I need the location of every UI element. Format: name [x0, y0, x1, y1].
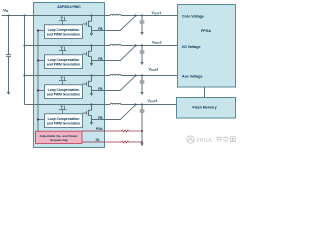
- Flash Memory block: [177, 98, 236, 119]
- svg-text:Loop Compensation: Loop Compensation: [48, 117, 80, 121]
- node dot seq ch2: [37, 59, 39, 61]
- node dot FB ch1: [134, 14, 136, 16]
- svg-text:Loop Compensation: Loop Compensation: [48, 58, 80, 62]
- node dot ch3 feed: [23, 74, 25, 76]
- svg-text:and PWM Generation: and PWM Generation: [47, 32, 80, 36]
- node dot GL: [141, 141, 143, 143]
- svg-text:Core Voltage: Core Voltage: [182, 14, 204, 18]
- svg-text:FB: FB: [98, 87, 103, 91]
- capacitor C4: [140, 105, 145, 112]
- ground arrow Q3: [90, 93, 94, 96]
- watermark logo: [187, 136, 194, 143]
- svg-text:and PWM Generation: and PWM Generation: [47, 62, 80, 66]
- wire FB ch4: [92, 105, 136, 120]
- transistor Q1: [83, 14, 93, 33]
- node dot Vin-B: [23, 14, 25, 16]
- wire FB ch2: [92, 46, 136, 61]
- capacitor Cin: [8, 16, 10, 55]
- wire Vin vertical bus: [24, 16, 26, 105]
- wire PGd: [82, 130, 122, 132]
- node dot output cap ch2: [141, 44, 143, 46]
- wire rail ch2: [25, 45, 111, 47]
- node dot FB ch3: [134, 74, 136, 76]
- block loop compensation ch1: [45, 25, 83, 39]
- sequencing bus: [37, 31, 39, 132]
- wire rail ch4: [25, 104, 111, 106]
- compensation network icon ch3: [59, 77, 67, 85]
- node dot output cap ch1: [141, 14, 143, 16]
- wire GL: [82, 141, 122, 143]
- FPGA block: [178, 5, 236, 88]
- resistor R1: [122, 130, 129, 132]
- capacitor C2: [140, 46, 145, 63]
- inductor L3: [110, 74, 121, 75]
- PMIC block U1 ADP5014: [34, 3, 105, 148]
- ground arrow ch4: [140, 143, 144, 146]
- svg-text:ADP5014 PMIC: ADP5014 PMIC: [57, 5, 81, 9]
- node dot PGd: [141, 130, 143, 132]
- wire ch4 cap to ground: [141, 112, 143, 143]
- svg-text:Loop Compensation: Loop Compensation: [48, 88, 80, 92]
- node dot output cap ch3: [141, 74, 143, 76]
- ground arrow Q2: [90, 63, 94, 66]
- wire Vin rail / Vout1 rail: [2, 15, 111, 17]
- ground arrow C3: [140, 92, 144, 95]
- resistor R2: [122, 141, 129, 143]
- node dot FB ch2: [134, 44, 136, 46]
- ground arrow Q1: [90, 33, 94, 36]
- svg-text:FPGA: FPGA: [197, 138, 212, 144]
- node dot Vin-A: [7, 14, 9, 16]
- svg-text:and PWM Generation: and PWM Generation: [47, 121, 80, 125]
- transistor Q3: [83, 74, 93, 93]
- node dot seq ch3: [37, 89, 39, 91]
- svg-text:Flash Memory: Flash Memory: [192, 105, 216, 109]
- svg-text:PGd: PGd: [96, 127, 103, 131]
- node dot seq ch4: [37, 118, 39, 120]
- block loop compensation ch3: [45, 85, 83, 99]
- node dot FB ch4: [134, 103, 136, 105]
- node dot output cap ch4: [141, 103, 143, 105]
- svg-text:and PWM Generation: and PWM Generation: [47, 92, 80, 96]
- ground arrow Q4: [90, 122, 94, 125]
- node dot ch2 feed: [23, 44, 25, 46]
- svg-text:FB: FB: [98, 57, 103, 61]
- svg-text:Aux Voltage: Aux Voltage: [182, 75, 203, 79]
- block loop compensation ch4: [45, 114, 83, 128]
- transistor Q4: [83, 103, 93, 122]
- svg-text:VOUT1: VOUT1: [152, 11, 162, 16]
- wire FB ch1: [92, 16, 136, 31]
- transistor Q2: [83, 44, 93, 63]
- compensation network icon ch4: [59, 106, 67, 114]
- inductor L1: [110, 14, 121, 15]
- block loop compensation ch2: [45, 55, 83, 69]
- wire FB ch3: [92, 76, 136, 91]
- compensation network icon ch2: [59, 47, 67, 55]
- svg-text:FB: FB: [98, 27, 103, 31]
- wire rail ch3: [25, 75, 111, 77]
- node dot seq ch1: [37, 29, 39, 31]
- capacitor C3: [140, 76, 145, 93]
- capacitor C1: [140, 16, 145, 33]
- svg-text:I/O Voltage: I/O Voltage: [182, 45, 201, 49]
- svg-text:FPGA: FPGA: [201, 29, 211, 33]
- ground arrow C1: [140, 32, 144, 35]
- compensation network icon ch1: [59, 17, 67, 25]
- svg-text:Loop Compensation: Loop Compensation: [48, 28, 80, 32]
- svg-text:VOUT2: VOUT2: [152, 41, 162, 46]
- inductor L2: [110, 44, 121, 45]
- ground arrow C2: [140, 62, 144, 65]
- ground arrow Cin: [7, 92, 11, 95]
- svg-text:GL: GL: [96, 138, 100, 142]
- svg-text:FB: FB: [98, 116, 103, 120]
- block sequencing: [36, 131, 83, 143]
- wire FPGA to Flash: [204, 87, 206, 98]
- svg-text:Sequencing: Sequencing: [50, 138, 68, 142]
- inductor L4: [110, 103, 121, 104]
